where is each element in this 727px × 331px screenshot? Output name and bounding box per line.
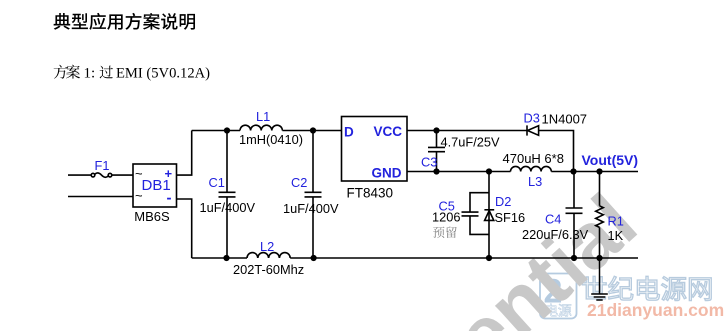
svg-text:D: D [344,125,354,140]
svg-text:21dianyuan.com: 21dianyuan.com [587,300,724,320]
svg-text:1N4007: 1N4007 [542,111,588,126]
node top rail / C1 [224,127,230,133]
svg-text:1uF/400V: 1uF/400V [283,201,339,216]
svg-text:L1: L1 [256,109,270,124]
node switch / C4 / D3 [570,168,576,174]
svg-text:-: - [167,190,172,207]
wire output Vout rail [551,171,638,173]
svg-text:VCC: VCC [374,124,403,139]
node GND rail / D2 [486,168,492,174]
diode D3 [527,125,539,135]
node Vout / R1 [596,168,602,174]
inductor L1 [240,125,282,130]
wire top rail left [192,130,240,132]
fuse F1 [91,173,112,177]
svg-text:L3: L3 [528,174,542,189]
svg-text:C3: C3 [421,155,437,170]
svg-text:C4: C4 [545,212,561,227]
node bottom rail / C4 [571,255,577,261]
inductor L2 [247,253,290,258]
svg-text:~: ~ [135,166,143,181]
wire bottom rail left [192,257,247,259]
svg-text:~: ~ [135,188,143,203]
node bottom rail / C1 [223,255,229,261]
IC U1 FT8430 body [342,117,408,182]
resistor R1 [596,172,604,259]
svg-text:202T-60Mhz: 202T-60Mhz [233,262,304,277]
svg-text:MB6S: MB6S [134,209,170,224]
wire D3 cathode rail and drop to switch node [539,131,574,172]
svg-text:R1: R1 [608,214,624,229]
svg-text:D3: D3 [524,110,540,125]
ground [591,258,608,300]
svg-text:1mH(0410): 1mH(0410) [239,132,303,147]
svg-text:4.7uF/25V: 4.7uF/25V [441,134,501,149]
node bottom rail / D2 [486,255,492,261]
capacitor C2 [305,131,322,259]
svg-text:+: + [165,166,173,181]
svg-text:GND: GND [372,166,402,181]
wire DB1 + output to top rail [177,131,192,176]
svg-text:L2: L2 [260,239,274,254]
svg-text:C1: C1 [209,175,225,190]
svg-text:Vout(5V): Vout(5V) [582,152,639,168]
capacitor C1 [219,131,236,259]
svg-text:220uF/6.3V: 220uF/6.3V [522,227,589,242]
label C5 note 预留 [433,227,444,238]
inductor L3 [511,166,552,171]
wire top rail right to IC D pin [282,130,341,132]
wire AC input bottom [68,196,133,198]
svg-text:D2: D2 [495,194,511,209]
wire GND pin rail [407,171,511,173]
wire VCC rail [407,130,527,132]
svg-text:F1: F1 [95,158,110,173]
svg-text:1206: 1206 [432,210,460,225]
node bottom rail / C2 [311,255,317,261]
wire bottom rail right [290,257,638,259]
bridge rectifier DB1 [133,164,177,207]
svg-text:C2: C2 [291,175,307,190]
node VCC / C3 [433,127,439,133]
svg-text:SF16: SF16 [495,210,526,225]
node top rail / C2 [310,127,316,133]
wire AC input top [68,174,91,176]
diode D2 [484,172,494,259]
svg-text:470uH 6*8: 470uH 6*8 [503,151,564,166]
svg-text:1uF/400V: 1uF/400V [200,200,256,215]
wire DB1 - output to bottom rail [177,199,192,258]
node bottom rail / R1 gnd [596,255,602,261]
title 典型应用方案说明 [54,13,195,30]
node GND rail / C3 [433,168,439,174]
svg-text:FT8430: FT8430 [347,186,394,201]
svg-text:EMI (5V0.12A): EMI (5V0.12A) [116,66,210,82]
capacitor C3 [428,131,445,172]
svg-text:1K: 1K [608,228,624,243]
svg-text:1:: 1: [84,66,96,82]
wire fuse to bridge [112,174,133,176]
subtitle 方案 1: 过 EMI (5V0.12A) [54,65,210,82]
capacitor C5 branch [462,193,490,235]
capacitor C4 [566,172,583,259]
